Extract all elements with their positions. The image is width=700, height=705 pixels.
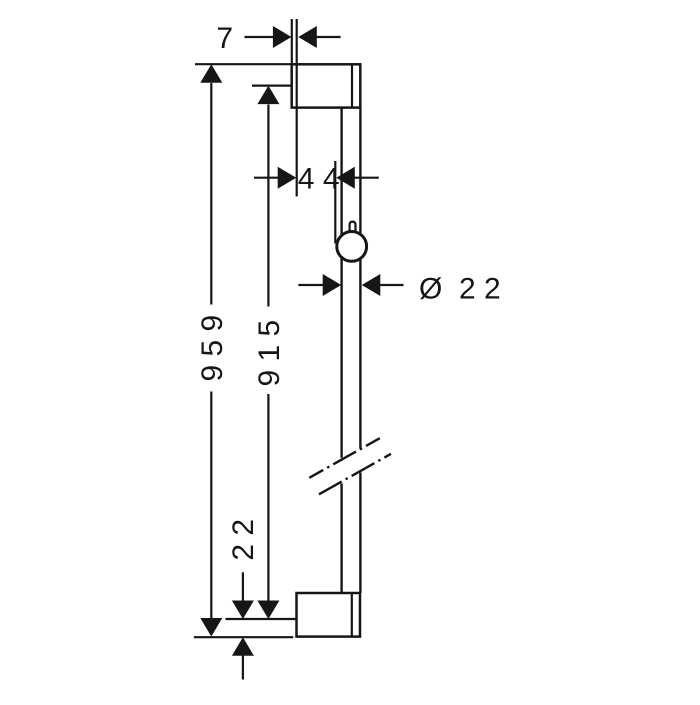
dim line 959 upper segment [210,83,212,305]
dim line 959 lower segment [210,392,212,620]
dim 7 line left [245,36,275,38]
dim 44 line left [254,177,278,179]
ext line 959 top [195,63,291,65]
dim 22 bottom arrow down-pointing [232,601,254,620]
svg-text:9 1 5: 9 1 5 [253,320,286,387]
dim 22 bottom leader upper [242,572,244,601]
svg-text:Ø 2 2: Ø 2 2 [419,272,501,305]
dim 22 bottom arrow up-pointing [232,637,254,656]
break line B [319,454,391,495]
ext line 915 top [252,84,291,86]
arrow 915 top [257,86,279,105]
break line A [309,438,380,478]
svg-text:7: 7 [216,22,233,55]
rail left edge upper [340,108,342,458]
rail left edge lower [340,484,342,594]
dim 7 line right [316,36,341,38]
rail right edge upper [359,108,361,449]
arrow 959 bottom [200,618,222,637]
dim 22 diameter line left [298,284,323,286]
dim 22 diameter line right [380,284,404,286]
ext line 44 to slider tangent [334,161,336,244]
dim 22 diameter arrow right-pointing [323,274,342,296]
dim line 915 upper segment [267,105,269,307]
svg-text:2 2: 2 2 [227,519,260,561]
rail right edge lower [359,473,361,594]
slider knob circle [337,232,367,262]
slider stub [350,222,356,236]
bottom bracket inner clamp line [351,593,353,637]
bottom bracket outer [297,593,361,637]
dim 7 arrow right-pointing [273,26,292,48]
extension line wall-left [291,19,293,63]
dim 22 bottom leader lower [242,655,244,679]
dim line 915 lower segment [267,394,269,601]
dim 44 line right [355,177,379,179]
top bracket outer [292,64,361,107]
svg-text:9 5 9: 9 5 9 [196,315,229,382]
ext line 915 bottom [226,618,297,620]
dim 7 arrow left-pointing [298,26,317,48]
arrow 915 bottom [257,601,279,620]
top bracket inner clamp line [351,64,353,107]
svg-text:4 4: 4 4 [298,162,340,195]
dim 44 arrow right-pointing [278,167,297,189]
arrow 959 top [200,64,222,83]
dim 22 diameter arrow left-pointing [362,274,381,296]
ext line 959 bottom [194,636,293,638]
dim 44 arrow left-pointing [336,167,355,189]
extension line wall-right (long, through bracket) [296,19,298,197]
